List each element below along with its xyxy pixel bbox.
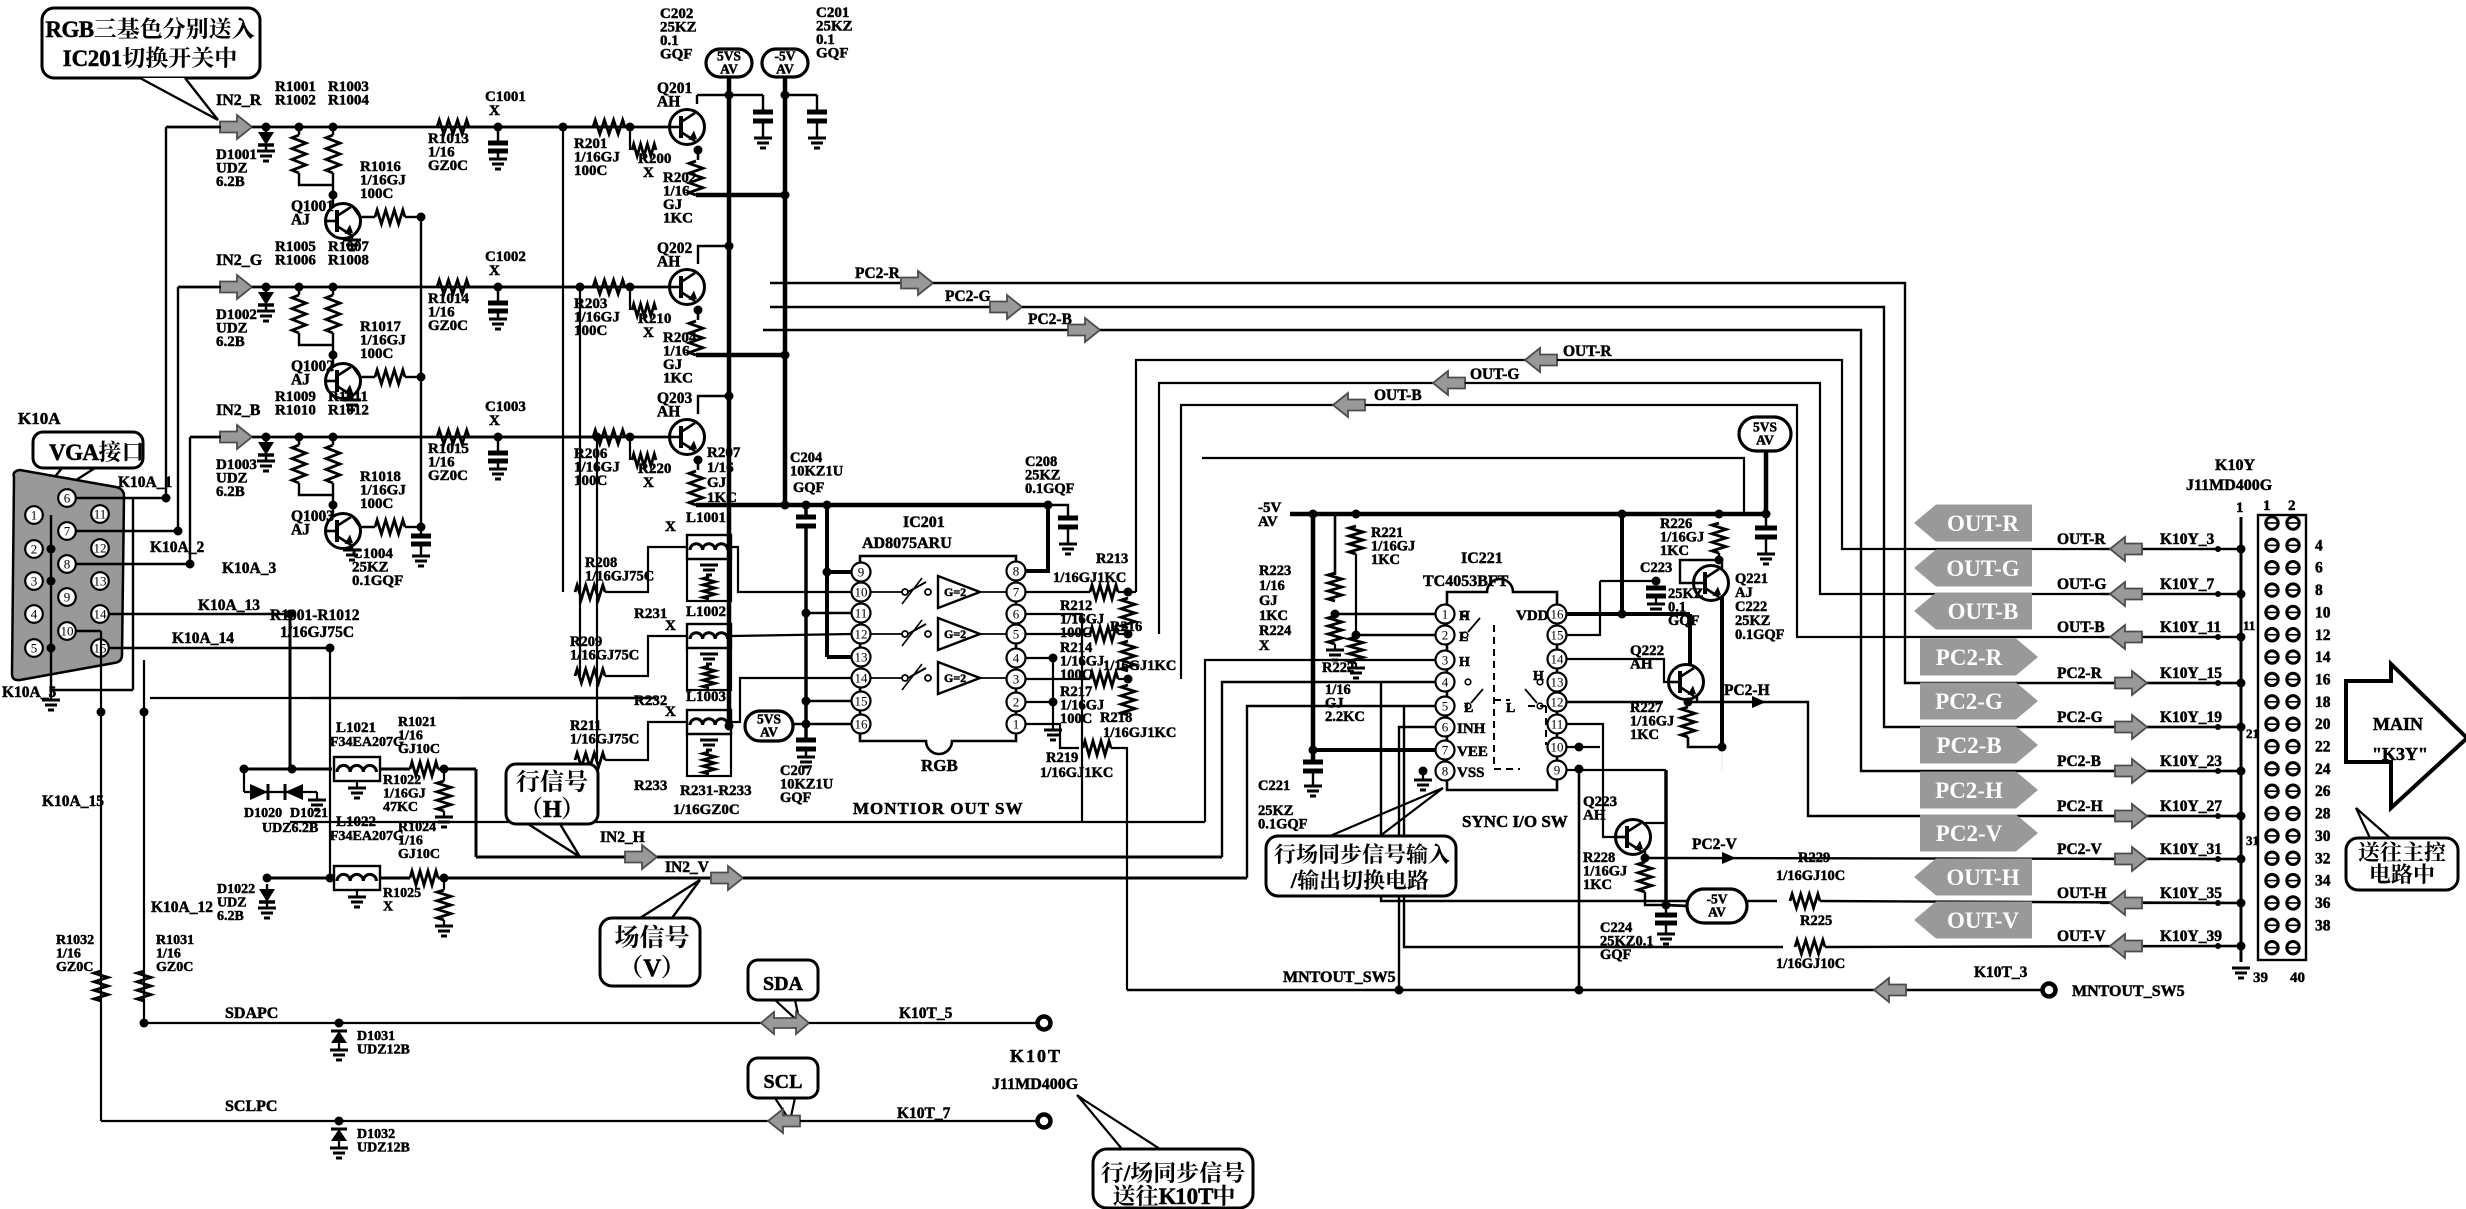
transistor Q1002 [326,355,333,381]
svg-text:1/16: 1/16 [1259,578,1285,594]
wire H line mid [380,768,410,771]
svg-text:26: 26 [2315,783,2331,800]
svg-text:2: 2 [1442,628,1449,643]
wire pin3 line y=660 to IC221 [1205,660,1445,822]
svg-text:X: X [643,325,654,341]
svg-text:AH: AH [657,94,680,111]
svg-text:15: 15 [855,694,868,709]
svg-text:40: 40 [2290,970,2305,986]
svg-text:T: T [1198,1184,1213,1209]
svg-text:6.2B: 6.2B [216,484,245,500]
svg-text:K10T_7: K10T_7 [897,1105,951,1122]
ground K10A_5 [47,545,56,554]
svg-text:R233: R233 [634,778,667,794]
wire pin7 to K10A_2 [76,530,178,532]
svg-text:GQF: GQF [793,480,825,496]
svg-text:D1021: D1021 [290,806,328,821]
svg-text:K10A_15: K10A_15 [42,793,104,810]
svg-text:PC2-B: PC2-B [1936,733,2001,758]
svg-text:9: 9 [1554,763,1561,778]
pin 4 of IC221 [1436,673,1455,692]
resistor R204 [689,321,703,355]
svg-text:20: 20 [2315,716,2331,733]
svg-text:X: X [383,900,393,915]
transistor Q222 [1669,665,1704,700]
svg-text:PC2-R: PC2-R [1936,645,2003,670]
pin 4 of IC201 [1007,649,1026,668]
pin pair row 9 of K10Y [2266,606,2278,618]
pin 3 of IC201 [1007,670,1026,689]
resistor R220 [629,437,631,460]
resistor R1021 [410,762,438,776]
pin 13 of K10A [91,572,109,590]
banner OUT-G [1914,550,2032,587]
wire rail to pin13 [825,505,829,657]
svg-text:OUT-G: OUT-G [1470,366,1519,383]
resistor R207 [689,471,703,505]
signal arrow OUT-R [2110,537,2142,561]
svg-text:GQF: GQF [816,46,849,62]
signal arrow IN2_G [220,275,252,299]
svg-text:1: 1 [1175,1184,1187,1209]
wire Q202 emitter [694,306,703,315]
pin 8 of IC221 [1436,762,1455,781]
svg-text:G=2: G=2 [944,671,966,685]
signal arrow PC2-V [2115,847,2147,871]
wire INH to MNTOUT vertical [1399,727,1445,990]
svg-text:OUT-V: OUT-V [2057,928,2106,945]
svg-text:1/16GZ0C: 1/16GZ0C [673,802,740,818]
pin 11 of K10A [91,505,109,523]
power -5V AV [762,49,808,77]
wire G-feed vertical [579,287,581,676]
wire B-feed vertical [596,437,598,760]
svg-text:SYNC I/O SW: SYNC I/O SW [1462,812,1568,831]
svg-text:OUT-H: OUT-H [2057,885,2106,902]
svg-text:OUT-B: OUT-B [1948,599,2019,624]
svg-text:AH: AH [657,254,680,271]
svg-text:PC2-G: PC2-G [945,288,991,305]
pin pair row 17 of K10Y [2266,696,2278,708]
svg-text:1/16GJ75C: 1/16GJ75C [280,624,354,641]
bubble H pointer [528,824,580,857]
pin 7 of IC201 [1007,583,1026,602]
ground VSS pin8 [1419,767,1428,776]
svg-text:PC2-G: PC2-G [1935,689,2003,714]
IC221 box [1447,579,1557,790]
capacitor C222 [1765,514,1767,528]
svg-text:IN2_B: IN2_B [216,402,261,419]
svg-text:RGB: RGB [921,756,958,775]
svg-text:IN2_H: IN2_H [600,829,645,846]
svg-text:L1021: L1021 [336,720,376,736]
pin 5 of K10A [25,639,43,657]
ground under L1021 [356,781,358,788]
wire -5V feed rail [1290,512,1767,517]
pin pair row 13 of K10Y [2266,651,2278,663]
svg-text:14: 14 [94,607,108,622]
svg-text:J11MD400G: J11MD400G [2186,477,2273,494]
resistor R201 [593,120,625,134]
pin 4 of K10A [25,605,43,623]
wire to transistor base [299,173,333,185]
svg-text:K10A_3: K10A_3 [222,560,277,577]
svg-text:14: 14 [2315,649,2331,666]
terminal K10T_7 [1038,1115,1051,1128]
resistor R1007/R1008 [329,283,338,292]
junction to IC201 feed [593,433,602,442]
svg-text:3: 3 [1442,653,1449,668]
svg-text:2: 2 [2288,498,2296,514]
svg-text:X: X [489,103,500,119]
svg-text:1KC: 1KC [1630,727,1659,743]
pin 12 of IC201 [852,625,871,644]
svg-text:GJ10C: GJ10C [398,847,440,862]
annotation bubble VGA [33,432,143,468]
wire K10Y_23 to K10Y [2100,770,2241,772]
svg-text:7: 7 [1442,743,1449,758]
svg-text:1: 1 [1442,607,1449,622]
wire Q201 emitter [694,146,703,155]
banner PC2-B [1920,727,2038,764]
wire K10A_1 up to R channel [165,127,167,498]
power -5V AV pill [1687,889,1747,923]
svg-text:34: 34 [2315,873,2331,890]
annotation bubble K10T note [1093,1149,1253,1208]
svg-text:R1012: R1012 [328,403,369,419]
svg-text:GZ0C: GZ0C [428,318,468,334]
resistor R222 [1349,637,1363,663]
wire 5VS vertical [725,722,734,731]
pin 12 of IC221 [1548,693,1567,712]
wire pin11 to Q223 base [1566,724,1616,837]
svg-text:100C: 100C [1060,667,1092,683]
svg-text:1/16GJ75C: 1/16GJ75C [570,648,639,664]
pin 13 of IC221 [1548,673,1567,692]
signal arrow OUT-G [2110,582,2142,606]
banner PC2-G [1920,683,2038,720]
capacitor C207 [796,738,816,743]
wire pin16 to 5VS pill [794,723,852,726]
svg-text:AV: AV [1708,905,1726,920]
annotation bubble V signal [600,918,700,986]
svg-text:0.1GQF: 0.1GQF [1735,627,1785,643]
wire -5V supply rail above IC201 [696,503,1048,508]
svg-text:10: 10 [2315,604,2331,621]
wire L1001 out to pin10 [731,547,852,592]
svg-text:30: 30 [2315,828,2331,845]
svg-text:6.2B: 6.2B [217,909,244,924]
svg-text:21: 21 [2246,726,2259,741]
svg-text:1: 1 [2263,498,2271,514]
pin 6 of IC221 [1436,718,1455,737]
wire pin5 feed from IN2_V [1247,706,1445,878]
svg-text:2: 2 [88,46,100,71]
svg-text:K10Y_35: K10Y_35 [2160,885,2222,902]
pin pair row 3 of K10Y [2266,539,2278,551]
svg-text:1/16GJ10C: 1/16GJ10C [1776,868,1845,884]
pin 11 of IC221 [1548,715,1567,734]
pin 1 of IC201 [1007,715,1026,734]
capacitor C202 [725,91,734,100]
annotation bubble H signal [506,764,598,824]
ground under L1022 [356,890,358,897]
wire pin11 to C204 node [806,612,852,614]
pin 14 of K10A [91,605,109,623]
svg-text:GZ0C: GZ0C [428,468,468,484]
svg-text:11: 11 [855,606,868,621]
svg-text:MNTOUT_SW5: MNTOUT_SW5 [1283,969,1396,986]
svg-text:TC4053BFT: TC4053BFT [1423,573,1509,590]
svg-text:8: 8 [1013,564,1020,579]
svg-text:4: 4 [1013,651,1020,666]
annotation bubble SCL [748,1058,818,1098]
wire loop line x=1202 [1202,458,1744,514]
svg-text:12: 12 [1551,695,1564,710]
svg-text:R: R [45,17,62,42]
svg-text:16: 16 [1551,607,1565,622]
svg-text:R1004: R1004 [328,93,369,109]
wire pin6 down to long line [1025,614,1082,822]
wire to bus [405,216,421,218]
svg-text:K10A_2: K10A_2 [150,539,205,556]
pin pair row 1 of K10Y [2266,517,2278,529]
wire +5VS rail right [1618,510,1627,519]
svg-text:0: 0 [99,46,111,71]
pin 2 of IC221 [1436,626,1455,645]
svg-text:AJ: AJ [291,522,310,539]
wire pin4 feed from IN2_H [1222,682,1445,857]
wire Q221 emitter rail to down [1721,747,1723,770]
capacitor C1002 [494,283,503,292]
signal arrow IN2_V [711,866,743,890]
wire pin6 to K10A_1 [76,497,166,499]
svg-text:PC2-H: PC2-H [1724,682,1770,699]
pin 3 of IC221 [1436,651,1455,670]
svg-text:100C: 100C [360,346,393,362]
svg-text:IC221: IC221 [1461,550,1503,567]
svg-text:K10T: K10T [1010,1046,1062,1066]
pin 9 of K10A [58,588,76,606]
wire Q221 emitter down [1720,597,1724,747]
svg-text:14: 14 [1551,652,1565,667]
capacitor C1003 [494,433,503,442]
bubble V pointer [640,880,700,918]
pin 13 of IC201 [852,648,871,667]
signal arrow IN2_B [220,425,252,449]
diode D1003 [262,433,271,442]
svg-text:1: 1 [1013,717,1020,732]
wire IN2_B line [252,436,620,439]
pin 5 of IC201 [1007,625,1026,644]
svg-text:OUT-G: OUT-G [2057,576,2106,593]
capacitor C201 [781,91,790,100]
pin 6 of K10A [58,489,76,507]
banner OUT-V [1914,902,2032,939]
svg-text:K10T_5: K10T_5 [899,1005,953,1022]
svg-text:R224: R224 [1259,623,1291,639]
svg-text:GZ0C: GZ0C [56,960,93,975]
svg-text:OUT-R: OUT-R [1563,343,1612,360]
wire pin15 stub [1566,614,1600,635]
pin 16 of IC201 [852,715,871,734]
svg-text:R1006: R1006 [275,253,316,269]
svg-text:K10Y_11: K10Y_11 [2160,619,2221,636]
wire H line to corner [438,768,476,771]
svg-text:1: 1 [31,508,38,523]
svg-text:28: 28 [2315,806,2331,823]
svg-text:6.2B: 6.2B [216,174,245,190]
svg-text:9: 9 [858,565,865,580]
svg-text:R231: R231 [634,606,667,622]
wire Q202 collector [698,246,729,264]
IC221 dashed control lines [1494,625,1546,769]
wire emitter resistor to -5V rail [696,193,785,198]
svg-text:5: 5 [1013,627,1020,642]
svg-text:K10Y_19: K10Y_19 [2160,709,2222,726]
svg-text:R1001-R1012: R1001-R1012 [270,607,360,624]
svg-text:1KC: 1KC [1259,608,1288,624]
svg-text:IN2_V: IN2_V [665,859,710,876]
pin pair row 33 of K10Y [2266,874,2278,886]
wire K10Y_27 to K10Y [2100,815,2241,817]
resistor R200 [629,127,631,150]
pin 7 of K10A [58,522,76,540]
wire OUT-V line [1404,706,1783,947]
svg-text:GZ0C: GZ0C [156,960,193,975]
svg-text:K10A_13: K10A_13 [198,597,260,614]
signal arrow IN2_H [625,845,657,869]
wire K10Y_11 to K10Y [2100,636,2241,638]
wire emitter resistor to -5V rail [696,353,785,358]
svg-text:K10T_3: K10T_3 [1974,964,2028,981]
svg-text:K10Y_39: K10Y_39 [2160,928,2222,945]
svg-text:OUT-V: OUT-V [1947,908,2019,933]
wire 5VS rail down [727,77,732,726]
pin 14 of IC201 [852,669,871,688]
wire K10A_14 vertical to V row [329,648,331,878]
svg-text:MAIN: MAIN [2373,714,2423,734]
svg-text:31: 31 [2246,833,2259,848]
svg-text:3: 3 [1013,672,1020,687]
svg-text:9: 9 [64,590,71,605]
svg-text:12: 12 [2315,627,2331,644]
pin 15 of K10A [91,639,109,657]
wire to transistor base [299,333,333,345]
svg-text:UDZ6.2B: UDZ6.2B [262,821,318,836]
svg-text:1KC: 1KC [1583,877,1612,893]
svg-text:1KC: 1KC [663,371,693,387]
svg-text:K10Y_3: K10Y_3 [2160,531,2215,548]
svg-text:GJ: GJ [707,475,727,491]
pin pair row 37 of K10Y [2266,919,2278,931]
svg-text:12: 12 [94,541,107,556]
wire IC201 pin9 supply [827,570,852,574]
power 5VS AV pill near IC201 [745,711,793,741]
svg-text:6: 6 [64,491,71,506]
svg-text:1/16GJ75C: 1/16GJ75C [570,732,639,748]
svg-text:V: V [643,955,661,982]
svg-text:K: K [1159,1184,1177,1209]
wire K10A pin10 down [76,630,101,633]
svg-text:H: H [543,797,562,823]
svg-text:AV: AV [776,62,794,77]
terminal K10T_5 [1038,1017,1051,1030]
connector K10A body [12,470,124,680]
svg-text:PC2-H: PC2-H [1935,778,2003,803]
resistor R1011/R1012 [329,433,338,442]
svg-text:2: 2 [31,542,38,557]
wire R209 to L1002 [605,636,687,676]
resistor R218 vertical [1121,685,1135,715]
bubble pointer [140,78,218,120]
wire H line from VGA [244,768,332,771]
svg-text:5: 5 [1442,699,1449,714]
wire K10A_3 up to B channel [189,437,191,564]
wire pin15 to C204 node [806,700,852,702]
pin pair row 21 of K10Y [2266,740,2278,752]
svg-text:100C: 100C [574,163,607,179]
pin 16 of IC221 [1548,605,1567,624]
svg-text:H: H [1459,655,1470,670]
svg-text:PC2-V: PC2-V [2057,841,2103,858]
pin 10 of K10A [58,622,76,640]
wire K10Y_3 to K10Y [2100,548,2241,550]
pin 10 of IC221 [1548,738,1567,757]
svg-text:R225: R225 [1800,913,1832,929]
svg-text:X: X [643,475,654,491]
terminal MNTOUT_SW5 [2043,984,2056,997]
wire pin14 to K10A_13 [109,613,290,615]
pin pair row 35 of K10Y [2266,897,2278,909]
svg-text:G=2: G=2 [944,627,966,641]
IC221 switch symbols [1462,611,1468,617]
signal arrow IN2_R [220,115,252,139]
svg-text:AH: AH [657,404,680,421]
svg-text:SCL: SCL [764,1071,803,1093]
svg-text:G: G [65,440,83,465]
svg-text:1KC: 1KC [663,211,693,227]
power 5VS AV pill right [1739,417,1791,451]
svg-text:X: X [665,704,676,720]
wire to bus [405,376,421,378]
signal arrow PC2-G [2115,715,2147,739]
pin 10 of IC201 [852,583,871,602]
svg-text:7: 7 [64,524,71,539]
diode D1021 [285,784,303,800]
wire IN2_G line [252,286,620,289]
ground at Q1002 emitter [351,394,353,400]
svg-text:IN2_G: IN2_G [216,252,263,269]
svg-text:1KC: 1KC [1371,552,1400,568]
svg-text:R1008: R1008 [328,253,369,269]
svg-text:0: 0 [1187,1184,1199,1209]
svg-text:K10Y_31: K10Y_31 [2160,841,2222,858]
wire Q201 collector [696,95,698,104]
ground at Q1001 emitter [351,234,353,240]
resistor R1001/R1002 [295,123,304,132]
svg-text:D1020: D1020 [244,806,282,821]
banner PC2-V [1920,815,2038,852]
wire IN2_R line [252,126,620,129]
banner OUT-H [1914,859,2032,896]
svg-text:X: X [665,618,676,634]
wire VEE line [1313,748,1445,752]
svg-text:1/16GJ1KC: 1/16GJ1KC [1103,658,1176,674]
wire Q221 base from R226 [1680,560,1719,583]
wire -5V rail down [783,77,788,505]
capacitor C1001 [494,123,503,132]
